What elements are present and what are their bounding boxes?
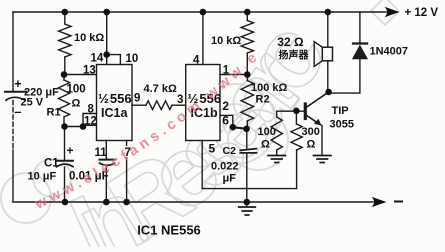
svg-text:1N4007: 1N4007 [370,46,409,58]
svg-text:10 kΩ: 10 kΩ [211,35,241,47]
svg-text:+ 12 V: + 12 V [405,7,439,19]
svg-text:10: 10 [126,53,139,65]
svg-text:C1: C1 [44,158,59,170]
svg-text:–: – [15,105,22,119]
svg-text:扬声器: 扬声器 [279,49,310,62]
svg-text:300: 300 [302,126,320,138]
svg-text:½ 556: ½ 556 [98,91,132,106]
svg-text:3: 3 [177,94,183,106]
svg-text:6: 6 [222,114,229,128]
svg-text:Ω: Ω [261,139,270,151]
svg-text:IC1a: IC1a [101,106,128,120]
svg-text:Ω: Ω [72,98,81,110]
svg-text:11: 11 [95,147,108,159]
svg-text:10 kΩ: 10 kΩ [74,32,104,44]
svg-text:Ω: Ω [307,139,316,151]
svg-text:C2: C2 [223,145,237,157]
svg-text:4.7 kΩ: 4.7 kΩ [144,83,177,95]
svg-text:100: 100 [258,126,276,138]
svg-text:IC1 NE556: IC1 NE556 [137,223,201,238]
svg-text:TIP: TIP [332,105,349,117]
svg-text:μF: μF [223,173,237,185]
svg-text:2: 2 [223,101,229,113]
svg-text:25 V: 25 V [21,97,44,109]
svg-text:100: 100 [67,84,86,96]
svg-text:32 Ω: 32 Ω [277,35,304,49]
svg-text:9: 9 [134,93,140,105]
svg-text:+: + [14,77,21,91]
svg-text:8: 8 [88,104,95,116]
svg-text:0.022: 0.022 [211,161,239,173]
svg-text:R2: R2 [256,94,270,106]
svg-text:13: 13 [83,65,96,77]
svg-text:5: 5 [209,142,216,156]
svg-text:10 μF: 10 μF [28,171,57,183]
svg-text:R1: R1 [47,107,61,119]
svg-text:100 kΩ: 100 kΩ [251,82,288,94]
svg-text:4: 4 [193,55,200,67]
svg-text:14: 14 [91,53,104,65]
svg-text:12: 12 [84,115,97,127]
svg-text:+: + [67,144,74,158]
svg-text:3055: 3055 [330,119,354,131]
